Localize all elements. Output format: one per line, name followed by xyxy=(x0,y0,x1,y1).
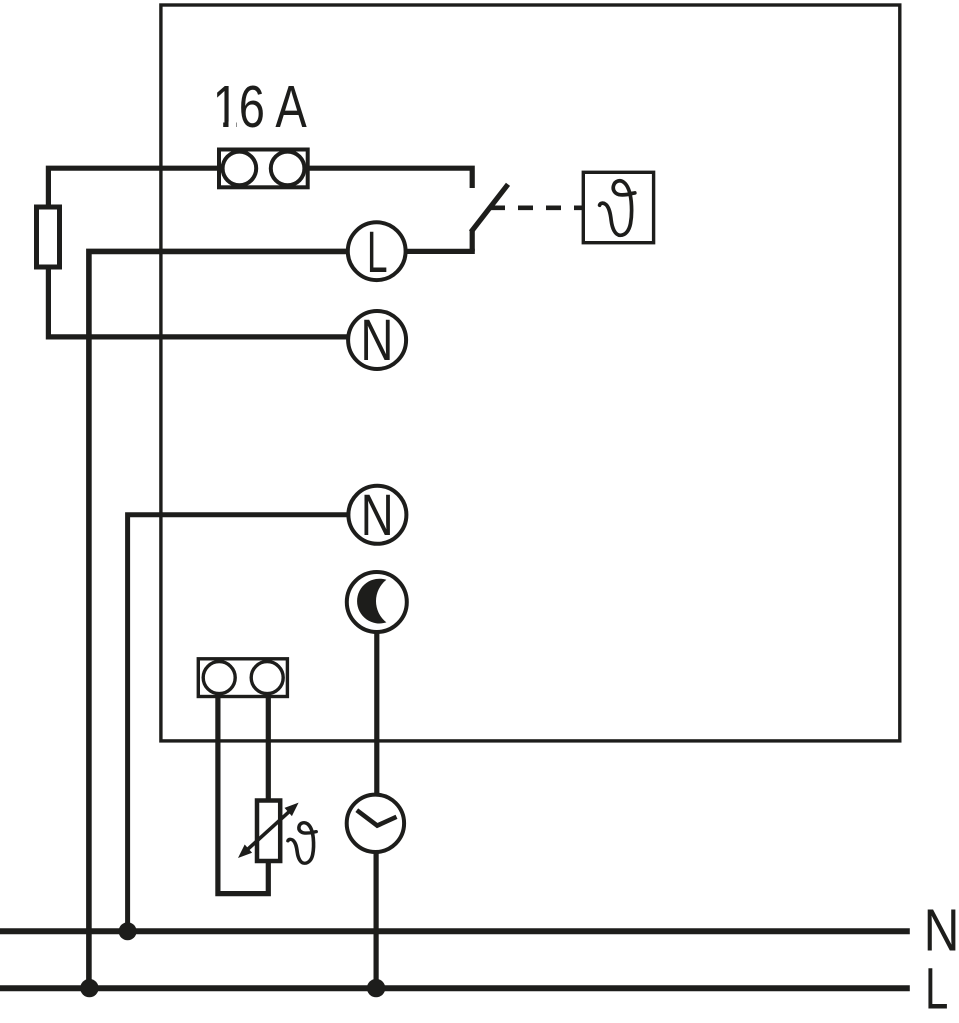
fuse F1 right contact circle xyxy=(271,152,305,186)
wire from moon terminal to clock xyxy=(374,631,379,795)
junction dot L bus left xyxy=(80,979,98,997)
thermistor RT1 body xyxy=(257,801,280,862)
timer clock hands xyxy=(357,810,397,825)
thermistor adjustment arrow xyxy=(238,803,299,858)
fuse F1 16A terminal block xyxy=(219,150,308,188)
wire node B corner: L line down to L bus xyxy=(89,251,348,988)
crescent moon symbol xyxy=(357,579,386,624)
thermostat theta symbol xyxy=(600,181,635,235)
junction dot N bus xyxy=(119,922,137,940)
N bus line xyxy=(0,928,910,934)
L bus line xyxy=(0,985,910,991)
resistor R1 xyxy=(37,207,60,267)
sensor block left contact circle xyxy=(203,662,235,694)
thermostat box U1 xyxy=(583,172,653,242)
wire sensor right leg to thermistor xyxy=(266,693,271,801)
terminal N lower circle xyxy=(348,486,406,544)
sensor terminal block X2 xyxy=(198,659,287,697)
junction dot L bus clock xyxy=(367,979,385,997)
wire from node A to fuse F1 xyxy=(48,168,218,205)
sensor block right contact circle xyxy=(251,662,283,694)
thermistor theta symbol xyxy=(288,823,316,864)
timer clock circle xyxy=(347,795,404,852)
switch S1 lower contact stub xyxy=(470,230,475,252)
wire sensor left leg down and U bottom xyxy=(218,693,268,894)
wire from terminal L to switch S1 xyxy=(406,249,475,254)
terminal N upper circle xyxy=(348,311,406,369)
svg-text:N: N xyxy=(924,897,959,964)
svg-text:N: N xyxy=(361,308,394,373)
fuse F1 left contact circle xyxy=(223,152,257,186)
wire from R1 to terminal N (upper) xyxy=(48,266,348,337)
svg-text:16 A: 16 A xyxy=(213,75,308,140)
svg-text:L: L xyxy=(925,956,948,1021)
switch S1 blade xyxy=(471,184,508,232)
wire from terminal N lower to N bus xyxy=(128,515,349,932)
svg-text:L: L xyxy=(367,220,388,285)
dashed actuator link from S1 to thermostat xyxy=(490,206,582,211)
night-mode terminal circle xyxy=(347,572,407,632)
wire from fuse F1 to switch S1 xyxy=(309,168,473,188)
device outline xyxy=(161,5,900,741)
terminal L circle xyxy=(348,222,406,280)
wire from clock to L bus xyxy=(374,853,379,989)
svg-text:N: N xyxy=(361,483,394,548)
